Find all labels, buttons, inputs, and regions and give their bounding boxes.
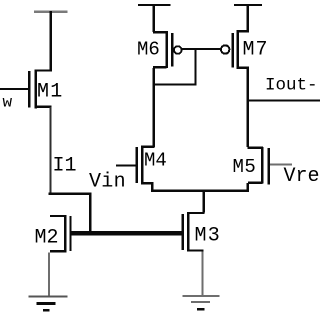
svg-text:M5: M5 [233, 156, 257, 178]
wire VDD rail to M7 source [247, 5, 250, 31]
transistor M4 [136, 146, 155, 185]
wire M7 drain to M5 drain [247, 69, 250, 147]
wire bias input to M1 gate [0, 88, 28, 90]
wire M5 gate to Vref [270, 164, 292, 166]
wire M6 gate-drain diode connection [153, 49, 196, 86]
svg-text:M7: M7 [243, 39, 269, 62]
wire VDD rail to M6 source [153, 5, 156, 32]
transistor M2 [50, 215, 72, 253]
wire M2 source to ground [48, 253, 50, 297]
svg-text:Vin: Vin [89, 171, 126, 194]
transistor M5 [247, 146, 269, 184]
wire M6 drain to M4 drain [153, 68, 156, 147]
svg-text:M4: M4 [144, 150, 167, 172]
transistor M3 [181, 212, 204, 252]
svg-text:M3: M3 [195, 225, 221, 248]
differential pair tail wire [151, 183, 249, 192]
svg-text:Vre: Vre [284, 165, 320, 188]
wire VDD rail to M1 drain [50, 11, 53, 71]
transistor M6 [153, 31, 173, 68]
wire M1 source to node I1 [50, 107, 52, 194]
ground below M2 [29, 296, 68, 312]
svg-text:I1: I1 [53, 155, 77, 178]
transistor M7 [231, 30, 249, 69]
wire M2 gate to M3 gate (current-mirror gate line) [72, 231, 182, 236]
svg-text:M6: M6 [137, 39, 160, 61]
svg-text:w: w [3, 94, 13, 112]
svg-text:Iout-: Iout- [265, 76, 318, 96]
ground below M3 [183, 295, 220, 311]
bubble on M6 gate [174, 46, 182, 54]
wire node I1 to M2 gate (diode connection) [49, 193, 92, 235]
transistor M1 [28, 69, 52, 108]
wire Vin to M4 gate [116, 164, 136, 166]
power rail VDD above M1 [34, 11, 68, 13]
power rail VDD above M6 [138, 4, 171, 6]
svg-text:M2: M2 [35, 227, 59, 250]
bubble on M7 gate [221, 45, 229, 53]
wire M3 source to ground [202, 252, 204, 296]
wire M6 gate to M7 gate [182, 48, 221, 50]
wire tail node to M3 drain [203, 190, 206, 213]
power rail VDD above M7 [234, 4, 262, 6]
output wire Iout- [247, 99, 320, 101]
svg-text:M1: M1 [37, 81, 63, 104]
